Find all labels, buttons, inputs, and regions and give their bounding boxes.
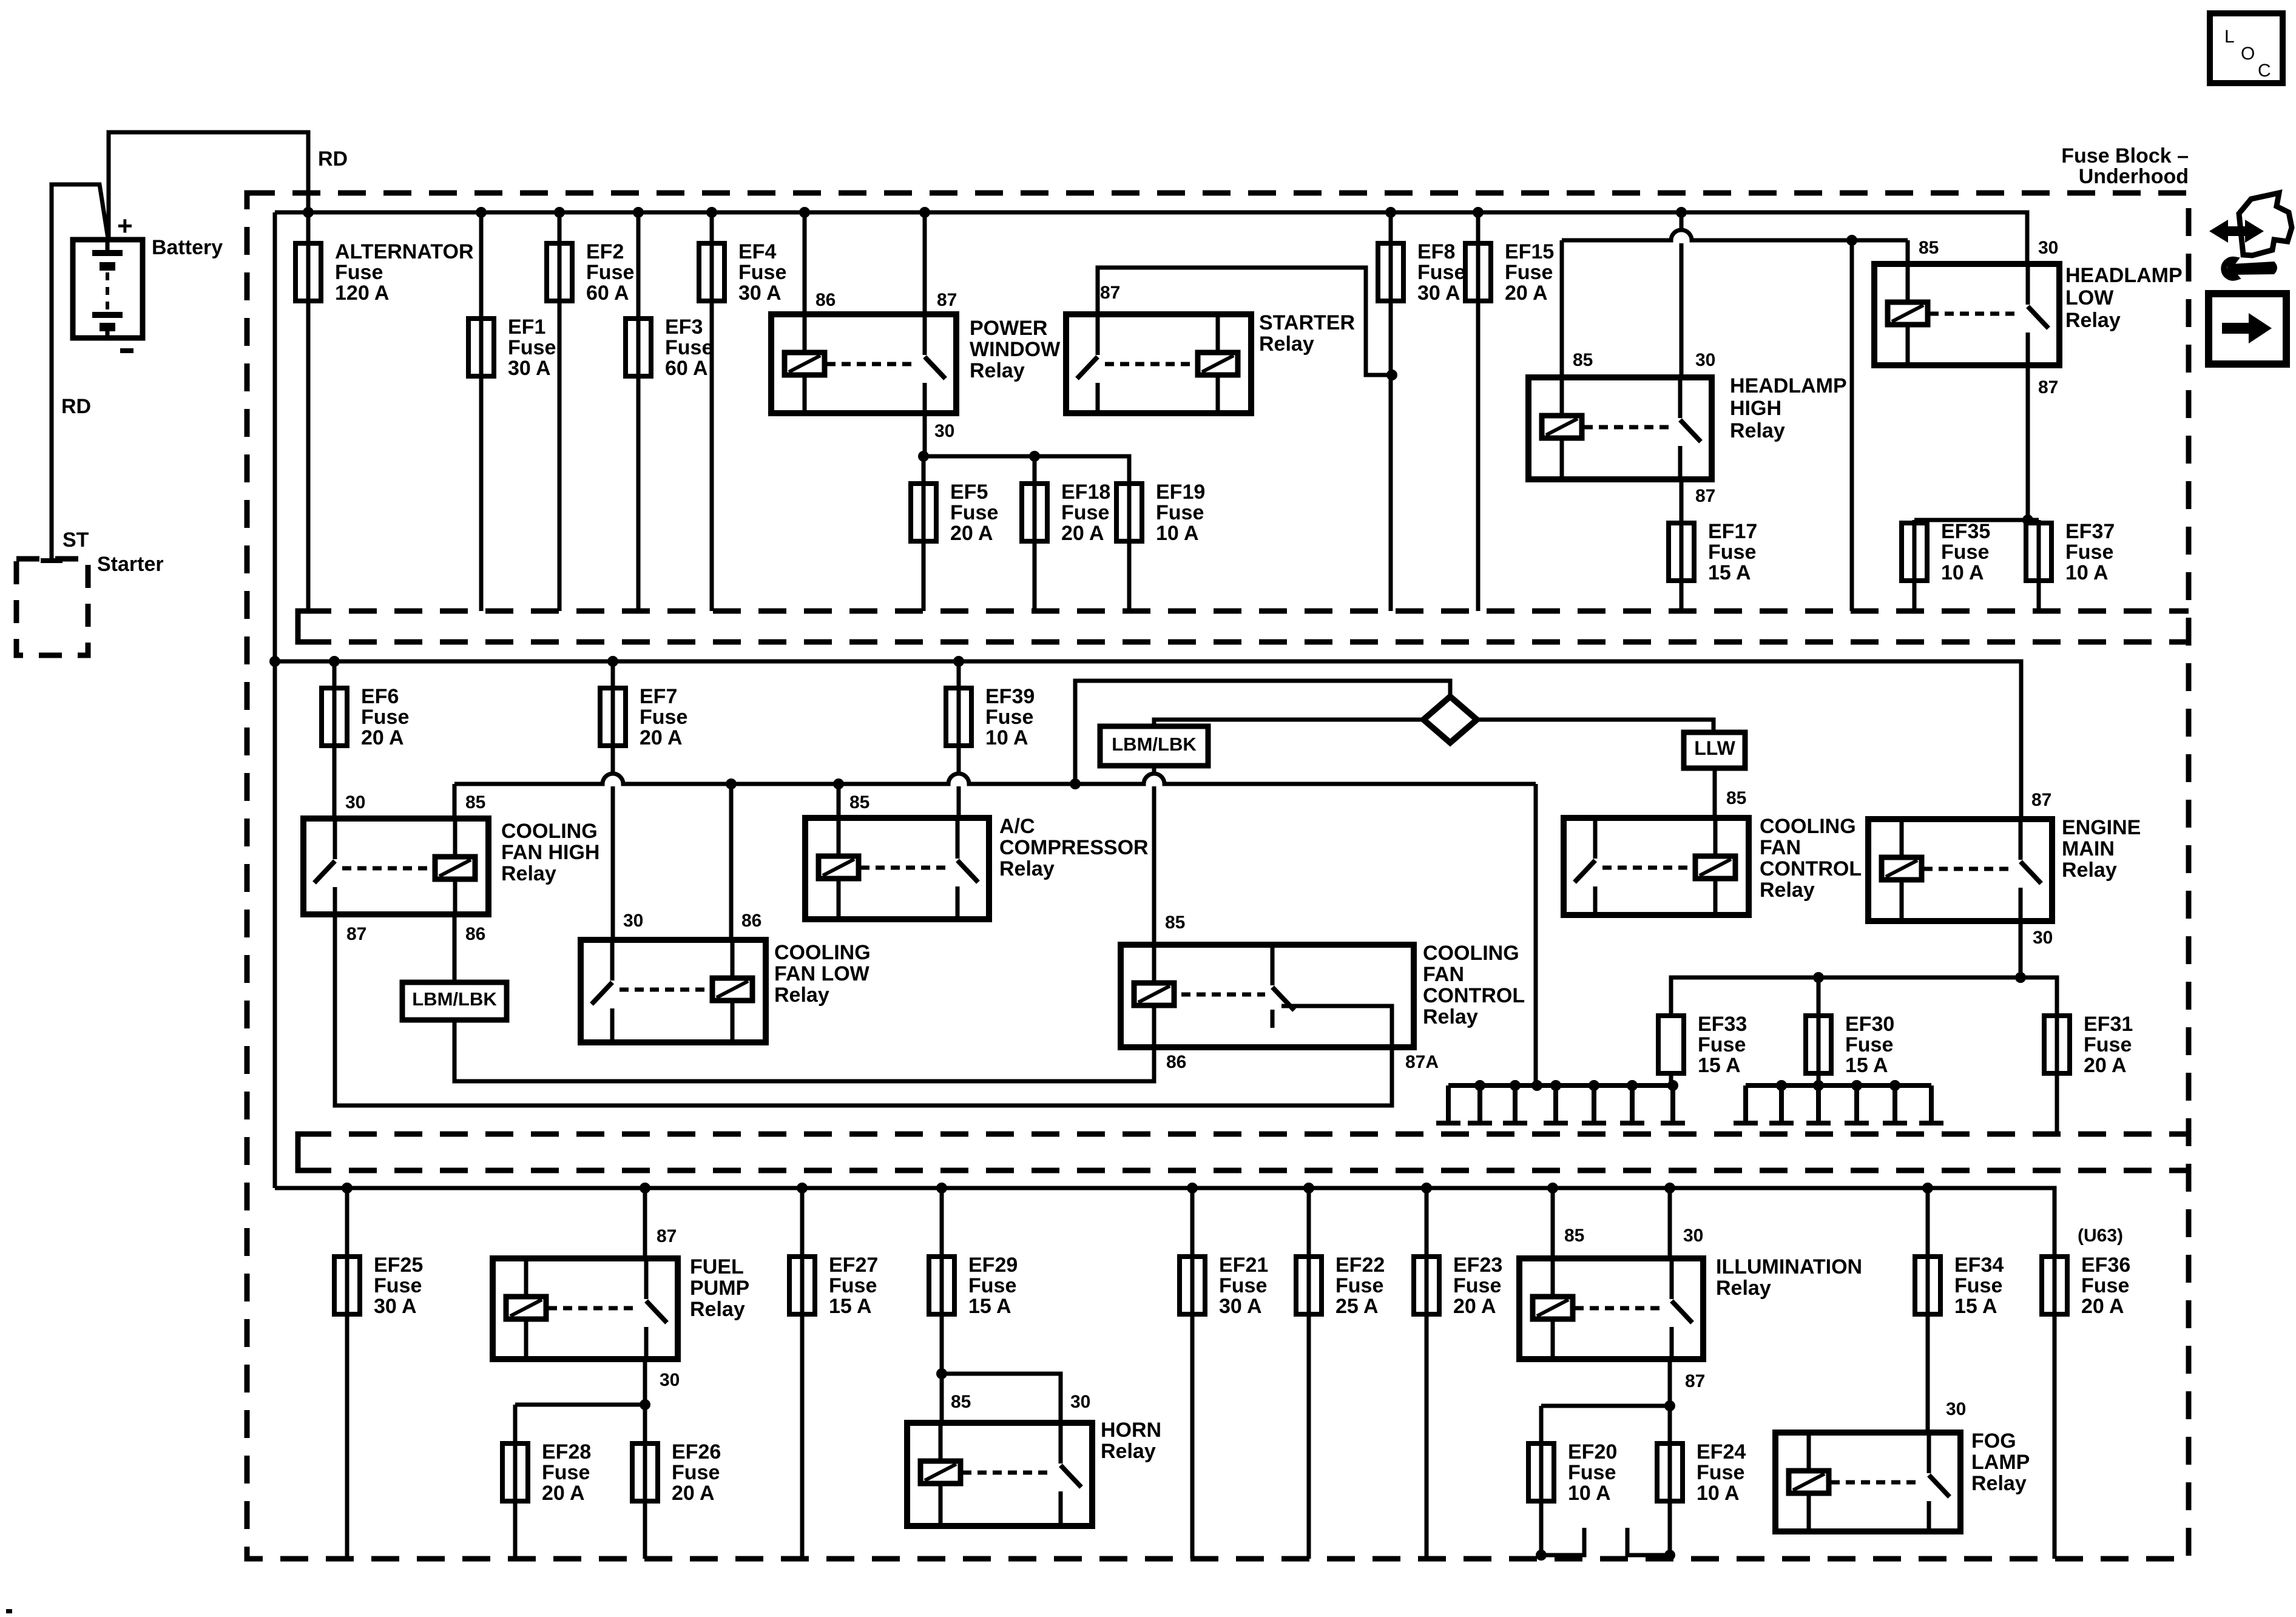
wire diamond right to LLW tag [1477, 720, 1714, 732]
svg-text:85: 85 [465, 792, 485, 812]
fuse EF18 20A [1022, 484, 1047, 541]
svg-text:COOLING: COOLING [501, 820, 598, 843]
svg-text:Fuse: Fuse [1156, 501, 1204, 524]
svg-text:Fuse: Fuse [361, 706, 409, 729]
fuse EF31 20A [2044, 1016, 2070, 1073]
starter wire end T-bar terminal [41, 558, 62, 563]
svg-text:86: 86 [465, 924, 485, 944]
internal dashed separator 2 upper line (bottom of middle section) [303, 1132, 2189, 1137]
fuse EF36 20A [2053, 1257, 2057, 1559]
staple connector below EF24 [1627, 1528, 1670, 1555]
svg-text:FAN HIGH: FAN HIGH [501, 841, 599, 864]
relay HEADLAMP LOW [1874, 264, 2059, 365]
wire EF28 drop [513, 1405, 518, 1559]
svg-text:15 A: 15 A [968, 1295, 1011, 1318]
wire POWER WINDOW relay pin 86 from bus [803, 212, 807, 314]
svg-text:Fuse: Fuse [1061, 501, 1109, 524]
svg-text:Fuse: Fuse [738, 261, 786, 284]
junction STARTER 87 to EF8 wire [1386, 370, 1397, 380]
svg-text:EF18: EF18 [1061, 481, 1110, 504]
svg-text:Relay: Relay [774, 984, 829, 1007]
fuse EF34 15A [1915, 1257, 1940, 1314]
vertical feed wire left (top bus to middle bus to bottom bus) [273, 212, 277, 1188]
wire EF24 drop [1668, 1406, 1672, 1555]
svg-text:Fuse: Fuse [2081, 1274, 2129, 1297]
svg-text:20 A: 20 A [542, 1482, 585, 1505]
wire diamond left to LBM/LBK tag 2 [1154, 720, 1423, 726]
icon vehicle service (double arrow, hood outline, wrench) [2209, 220, 2264, 243]
fuse EF20 10A [1528, 1443, 1554, 1501]
svg-text:Relay: Relay [1101, 1440, 1156, 1463]
splice comb left bar [1448, 1083, 1673, 1088]
svg-text:30 A: 30 A [738, 282, 782, 305]
wire EF7 drop with hop gap [611, 661, 615, 772]
svg-text:FAN: FAN [1760, 836, 1801, 859]
fuse EF35 10A [1902, 523, 1927, 581]
fuse EF25 30A [334, 1257, 360, 1314]
svg-text:EF34: EF34 [1954, 1254, 2004, 1277]
junction ILLUMINATION 87 [1664, 1400, 1675, 1411]
fuse EF39 10A [946, 688, 971, 746]
battery B+ wire RD to fuse block [109, 132, 308, 240]
svg-text:ENGINE: ENGINE [2062, 816, 2141, 839]
wire EF22 drop [1307, 1188, 1311, 1559]
svg-text:Fuse: Fuse [1568, 1461, 1616, 1484]
fuse EF26 20A [632, 1443, 658, 1501]
svg-text:Relay: Relay [1716, 1277, 1771, 1300]
svg-text:COMPRESSOR: COMPRESSOR [999, 836, 1149, 859]
connector diamond splice [1423, 697, 1477, 743]
svg-text:EF27: EF27 [829, 1254, 878, 1277]
outer dashed box: Fuse Block - Underhood boundary [247, 193, 2189, 1559]
svg-text:L: L [2224, 27, 2235, 47]
wire EF29 to HORN pin 30 [942, 1374, 1061, 1423]
svg-text:EF8: EF8 [1417, 240, 1455, 263]
svg-text:Fuse: Fuse [672, 1461, 720, 1484]
svg-text:30 A: 30 A [1219, 1295, 1262, 1318]
wire battery to starter (left RD drop) [52, 184, 108, 559]
svg-text:WINDOW: WINDOW [970, 338, 1061, 361]
node tag LBM/LBK (lower left) [402, 982, 507, 1020]
net L1292 from COOLING FAN HIGH 85 with hops over EF7, EF39, LBM/LBK wires, down to splice comb [453, 784, 457, 819]
svg-text:EF25: EF25 [374, 1254, 423, 1277]
svg-text:EF36: EF36 [2081, 1254, 2130, 1277]
svg-text:30: 30 [660, 1370, 680, 1390]
wire ENGINE MAIN pin 30 down [2019, 921, 2023, 977]
battery - label [120, 348, 133, 353]
svg-text:+: + [117, 211, 133, 241]
wire LLW down to COOLING FAN CONTROL (right) 85 [1713, 768, 1717, 818]
svg-text:HEADLAMP: HEADLAMP [2065, 264, 2183, 287]
junction FUEL PUMP 30 [640, 1399, 650, 1410]
svg-text:85: 85 [849, 792, 869, 812]
svg-text:RD: RD [318, 147, 348, 170]
svg-text:15 A: 15 A [1698, 1054, 1741, 1077]
svg-text:85: 85 [1165, 913, 1185, 933]
relay HORN [907, 1423, 1092, 1526]
svg-text:EF30: EF30 [1845, 1013, 1894, 1036]
svg-text:30: 30 [1070, 1392, 1090, 1412]
svg-text:EF29: EF29 [968, 1254, 1018, 1277]
svg-text:20 A: 20 A [640, 726, 683, 749]
icon LOC reference box [2210, 13, 2283, 83]
wire FUEL PUMP pin 30 down to EF28/EF26 link [643, 1359, 647, 1405]
svg-text:30: 30 [1946, 1399, 1966, 1419]
svg-text:EF3: EF3 [665, 316, 703, 339]
wire EF21 drop [1190, 1188, 1195, 1559]
junction L1292 to COOLING FAN LOW 86 [726, 778, 737, 789]
svg-text:EF35: EF35 [1941, 520, 1990, 543]
internal dashed separator 1 upper line (bottom of top section) [303, 609, 2189, 614]
junction RD feed on top bus [303, 207, 314, 218]
link wire EF20/EF24 [1541, 1404, 1670, 1408]
svg-text:EF23: EF23 [1453, 1254, 1502, 1277]
svg-text:LLW: LLW [1694, 737, 1735, 759]
svg-text:20 A: 20 A [361, 726, 404, 749]
sub-bus EF5/EF18/EF19 [923, 456, 1129, 484]
junction EF18 sub-bus [1029, 451, 1040, 462]
relay A/C COMPRESSOR [805, 818, 989, 919]
svg-text:Fuse: Fuse [1697, 1461, 1744, 1484]
svg-text:120 A: 120 A [335, 282, 389, 305]
wire HEADLAMP HIGH pin 30 from bus, gap at 85-net hop [1680, 212, 1684, 229]
fuse EF2 60A [547, 243, 572, 301]
svg-text:10 A: 10 A [1568, 1482, 1611, 1505]
wire LBM/LBK tag 2 down to COOLING FAN CONTROL 85 (hop at L1292) [1152, 766, 1156, 772]
wire EF3 drop [636, 212, 641, 611]
wire EF39 drop with hop gap [957, 661, 961, 772]
svg-text:Fuse: Fuse [1941, 541, 1989, 564]
svg-text:Starter: Starter [97, 553, 164, 576]
wire EF6 drop [333, 661, 337, 819]
svg-text:Relay: Relay [501, 862, 556, 885]
svg-text:Relay: Relay [2065, 309, 2121, 332]
fuse EF28 20A [502, 1443, 528, 1501]
svg-text:Fuse: Fuse [1417, 261, 1465, 284]
fuse EF23 20A [1414, 1257, 1439, 1314]
bottom bus wire [275, 1188, 2055, 1257]
svg-text:Fuse: Fuse [1708, 541, 1756, 564]
svg-text:30: 30 [1695, 350, 1715, 370]
internal dashed separator 2 lower line (top of bottom section) [303, 1168, 2189, 1173]
svg-text:85: 85 [951, 1392, 971, 1412]
svg-text:87A: 87A [1405, 1052, 1439, 1072]
svg-text:30: 30 [1683, 1226, 1703, 1246]
relay COOLING FAN CONTROL (lower, wide with 87A) [1121, 945, 1414, 1047]
junction L1292 to A/C COMPRESSOR 85 [833, 778, 844, 789]
junction pin87 to EF35/EF37 link [2022, 515, 2033, 525]
fuse EF21 30A [1180, 1257, 1205, 1314]
net 30 line to EF33/EF30/EF31 [1671, 977, 2057, 1016]
junction ENGINE MAIN 30 on 30-net [2015, 972, 2026, 983]
svg-text:Fuse: Fuse [640, 706, 687, 729]
svg-text:Fuse: Fuse [374, 1274, 422, 1297]
wire POWER WINDOW relay pin 87 from bus [923, 212, 927, 314]
svg-text:Fuse: Fuse [1453, 1274, 1501, 1297]
svg-text:Relay: Relay [970, 359, 1025, 382]
svg-text:30: 30 [934, 421, 954, 441]
svg-text:EF20: EF20 [1568, 1440, 1617, 1463]
fuse EF19 10A [1116, 484, 1142, 541]
wire STARTER pin 87 up and over to EF8 wire [1098, 268, 1389, 375]
svg-text:Fuse: Fuse [1954, 1274, 2002, 1297]
svg-text:10 A: 10 A [2065, 561, 2109, 584]
svg-text:Fuse: Fuse [2065, 541, 2113, 564]
svg-text:EF33: EF33 [1698, 1013, 1747, 1036]
svg-text:EF1: EF1 [508, 316, 545, 339]
svg-text:MAIN: MAIN [2062, 837, 2115, 860]
junction feed/middle bus [269, 656, 280, 667]
svg-text:Fuse: Fuse [985, 706, 1033, 729]
svg-text:Battery: Battery [152, 236, 223, 259]
svg-text:FAN: FAN [1423, 963, 1464, 986]
svg-text:20 A: 20 A [672, 1482, 715, 1505]
svg-text:COOLING: COOLING [774, 941, 871, 964]
wire EF15 drop [1476, 212, 1481, 611]
wire EF20 drop [1539, 1406, 1544, 1555]
wire EF27 drop [800, 1188, 805, 1559]
svg-text:10 A: 10 A [1697, 1482, 1740, 1505]
separator 2 left jog connector [298, 1134, 313, 1170]
junction L1292 to diamond riser [1070, 778, 1081, 789]
svg-text:60 A: 60 A [586, 282, 629, 305]
svg-text:Fuse: Fuse [586, 261, 634, 284]
wire EF8 drop [1389, 212, 1393, 611]
wire LBM/LBK tag1 down and right to CFC 86 [454, 1020, 1154, 1081]
svg-text:Fuse: Fuse [968, 1274, 1016, 1297]
svg-text:86: 86 [815, 290, 836, 310]
svg-text:30: 30 [2033, 928, 2053, 948]
svg-text:EF39: EF39 [985, 685, 1035, 708]
svg-text:10 A: 10 A [1156, 522, 1199, 545]
svg-text:CONTROL: CONTROL [1423, 984, 1525, 1007]
wire COOLING FAN LOW pin 86 drop [729, 784, 734, 940]
fuse EF33 15A [1658, 1016, 1684, 1073]
svg-text:87: 87 [2038, 377, 2058, 397]
wire POWER WINDOW pin 30 down to EF5 sub-bus [923, 413, 927, 456]
node tag LLW [1684, 732, 1745, 768]
svg-text:EF6: EF6 [361, 685, 399, 708]
relay POWER WINDOW [771, 314, 956, 413]
fuse EF5 20A [911, 484, 936, 541]
svg-text:Relay: Relay [999, 857, 1055, 880]
junction EF30 on 30-net [1813, 972, 1824, 983]
relay FUEL PUMP [493, 1258, 678, 1359]
svg-text:STARTER: STARTER [1259, 311, 1355, 334]
wire EF35 drop [1913, 520, 1917, 611]
wire ILLUMINATION pin 85 from bus [1551, 1188, 1555, 1258]
wire EF30 drop [1817, 977, 1821, 1085]
staple connector below EF20 [1541, 1528, 1584, 1555]
fuse EF17 15A [1669, 523, 1694, 581]
relay COOLING FAN HIGH (mirrored) [303, 819, 488, 914]
wire EF29 drop [940, 1188, 944, 1423]
svg-text:85: 85 [1726, 788, 1746, 808]
junction EF29 to HORN [936, 1368, 947, 1379]
svg-text:Fuse Block –: Fuse Block – [2061, 144, 2189, 167]
node tag LBM/LBK (upper) [1100, 726, 1208, 766]
fuse EF24 10A [1657, 1443, 1683, 1501]
internal dashed separator 1 lower line (top of middle section) [303, 640, 2189, 645]
svg-text:20 A: 20 A [1505, 282, 1548, 305]
svg-text:87: 87 [1685, 1371, 1705, 1391]
fuse EF6 20A [322, 688, 347, 746]
svg-text:85: 85 [1919, 238, 1939, 258]
starter dashed box [16, 559, 88, 655]
svg-text:EF7: EF7 [640, 685, 677, 708]
svg-text:CONTROL: CONTROL [1760, 857, 1862, 880]
wire riser to diamond connector line [1075, 681, 1450, 784]
fuse EF8 30A [1378, 243, 1403, 301]
svg-text:Fuse: Fuse [829, 1274, 877, 1297]
svg-text:Fuse: Fuse [542, 1461, 590, 1484]
svg-text:Fuse: Fuse [1335, 1274, 1383, 1297]
fuse EF30 15A [1806, 1016, 1831, 1073]
relay STARTER (mirrored) [1066, 314, 1251, 413]
wire EF25 drop [345, 1188, 349, 1559]
svg-text:Relay: Relay [1730, 419, 1785, 442]
wire EF23 drop [1425, 1188, 1429, 1559]
svg-text:PUMP: PUMP [690, 1277, 749, 1300]
link wire EF28/EF26 [515, 1403, 645, 1407]
svg-text:Fuse: Fuse [1698, 1033, 1746, 1056]
separator 1 left jog connector [298, 611, 313, 642]
svg-text:EF2: EF2 [586, 240, 624, 263]
fuse ALTERNATOR 120A [295, 243, 321, 301]
fuse EF7 20A [600, 688, 626, 746]
svg-text:20 A: 20 A [2081, 1295, 2124, 1318]
wire EF2 drop [558, 212, 562, 611]
svg-text:30: 30 [345, 792, 365, 812]
svg-text:20 A: 20 A [950, 522, 993, 545]
svg-text:87: 87 [1100, 283, 1120, 303]
svg-text:Relay: Relay [1423, 1005, 1478, 1028]
svg-text:Relay: Relay [2062, 859, 2117, 882]
svg-text:20 A: 20 A [2084, 1054, 2127, 1077]
svg-text:Fuse: Fuse [665, 336, 713, 359]
relay COOLING FAN LOW (mirrored) [581, 940, 766, 1042]
svg-text:LBM/LBK: LBM/LBK [1112, 734, 1197, 755]
battery Battery symbol [73, 240, 143, 338]
wire CF HIGH pin 87 down and right to CFC 87A [335, 914, 1392, 1106]
relay HEADLAMP HIGH [1528, 377, 1712, 479]
svg-text:Fuse: Fuse [335, 261, 383, 284]
svg-text:COOLING: COOLING [1423, 942, 1519, 965]
svg-text:EF15: EF15 [1505, 240, 1554, 263]
wire EF1 drop [479, 212, 484, 611]
fuse EF29 15A [929, 1257, 954, 1314]
svg-text:Fuse: Fuse [2084, 1033, 2132, 1056]
svg-text:EF26: EF26 [672, 1440, 721, 1463]
wire EF31 drop [2055, 1016, 2059, 1134]
svg-text:EF19: EF19 [1156, 481, 1205, 504]
svg-text:87: 87 [2031, 790, 2051, 810]
svg-text:30 A: 30 A [1417, 282, 1460, 305]
wire EF19 drop [1127, 484, 1132, 611]
svg-text:HEADLAMP: HEADLAMP [1730, 374, 1847, 397]
svg-text:10 A: 10 A [985, 726, 1028, 749]
relay FOG LAMP [1775, 1433, 1960, 1531]
svg-text:Fuse: Fuse [1845, 1033, 1893, 1056]
svg-text:Fuse: Fuse [950, 501, 998, 524]
svg-text:EF22: EF22 [1335, 1254, 1385, 1277]
svg-text:POWER: POWER [970, 317, 1047, 340]
svg-text:LBM/LBK: LBM/LBK [412, 988, 497, 1010]
svg-text:85: 85 [1573, 350, 1593, 370]
svg-text:10 A: 10 A [1941, 561, 1984, 584]
svg-text:30 A: 30 A [374, 1295, 417, 1318]
svg-text:30 A: 30 A [508, 357, 551, 380]
fuse EF27 15A [789, 1257, 815, 1314]
relay ENGINE MAIN [1868, 819, 2052, 921]
svg-text:LAMP: LAMP [1971, 1451, 2030, 1474]
svg-text:RD: RD [61, 395, 91, 418]
svg-text:EF17: EF17 [1708, 520, 1757, 543]
fuse EF37 10A [2026, 523, 2051, 581]
svg-text:ALTERNATOR: ALTERNATOR [335, 240, 474, 263]
wire EF18 drop [1033, 456, 1037, 611]
svg-text:87: 87 [657, 1226, 677, 1246]
svg-text:Relay: Relay [1760, 879, 1815, 902]
svg-text:EF21: EF21 [1219, 1254, 1268, 1277]
wire A/C COMPRESSOR pin 85 drop [837, 784, 841, 818]
svg-text:(U63): (U63) [2078, 1226, 2123, 1246]
svg-text:EF28: EF28 [542, 1440, 591, 1463]
fuse EF4 30A [699, 243, 724, 301]
svg-text:FUEL: FUEL [690, 1255, 744, 1278]
fuse EF22 25A [1296, 1257, 1322, 1314]
svg-text:87: 87 [1695, 486, 1715, 506]
svg-text:HIGH: HIGH [1730, 397, 1781, 420]
relay ILLUMINATION [1519, 1258, 1703, 1359]
svg-text:15 A: 15 A [1708, 561, 1751, 584]
svg-text:FAN LOW: FAN LOW [774, 962, 870, 985]
svg-text:EF24: EF24 [1697, 1440, 1746, 1463]
svg-text:A/C: A/C [999, 815, 1035, 838]
wire EF37 drop [2037, 520, 2041, 611]
svg-text:20 A: 20 A [1453, 1295, 1496, 1318]
wire HEADLAMP LOW pin 87 down [2026, 365, 2030, 520]
svg-text:EF31: EF31 [2084, 1013, 2133, 1036]
wire EF26 drop [643, 1405, 647, 1559]
svg-text:15 A: 15 A [1845, 1054, 1888, 1077]
svg-text:EF5: EF5 [950, 481, 988, 504]
svg-text:87: 87 [937, 290, 957, 310]
svg-text:25 A: 25 A [1335, 1295, 1379, 1318]
net 85 line for headlamp relays with hop over pin30 wire [1562, 230, 1908, 240]
svg-text:15 A: 15 A [829, 1295, 872, 1318]
svg-text:15 A: 15 A [1954, 1295, 1997, 1318]
svg-text:HORN: HORN [1101, 1419, 1161, 1442]
splice comb right bar [1746, 1083, 1931, 1088]
wire EF4 drop [710, 212, 714, 611]
svg-text:ILLUMINATION: ILLUMINATION [1716, 1255, 1862, 1278]
svg-text:C: C [2258, 61, 2271, 81]
ALTERNATOR fuse wire [306, 212, 311, 611]
wire CF HIGH pin 86 to LBM/LBK tag 1 [453, 914, 457, 982]
middle bus wire [275, 661, 2021, 819]
svg-text:30: 30 [2038, 238, 2058, 258]
svg-text:85: 85 [1564, 1226, 1584, 1246]
top bus wire from battery feed to HEADLAMP LOW 30 [275, 212, 2027, 264]
svg-text:EF37: EF37 [2065, 520, 2115, 543]
svg-text:86: 86 [1166, 1052, 1186, 1072]
wire EF5 drop [922, 456, 926, 611]
svg-text:Relay: Relay [1259, 333, 1314, 356]
fuse EF1 30A [468, 319, 494, 376]
wire EF34 / FOG LAMP 30 drop [1926, 1188, 1930, 1433]
svg-text:30: 30 [623, 911, 643, 931]
